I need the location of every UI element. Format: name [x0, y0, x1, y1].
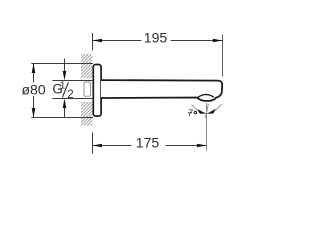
- arrow up to thread bottom: [63, 99, 67, 108]
- G1/2 bottom leader: [64, 107, 66, 117]
- arrow left of angle: [197, 109, 206, 114]
- arrow right of 195: [213, 39, 223, 43]
- svg-text:ø80: ø80: [22, 81, 46, 97]
- angle tilted axis line: [205, 104, 208, 118]
- dia80 extension line bottom: [31, 117, 93, 119]
- dim 195 right extension line: [222, 35, 224, 77]
- dim 195 line: [93, 40, 142, 42]
- dim 175 left extension line: [92, 133, 94, 154]
- arrow bottom of dia80: [32, 108, 36, 118]
- dim dia80 vertical line lower: [33, 96, 35, 118]
- arrow top of dia80: [32, 63, 36, 73]
- svg-text:195: 195: [144, 30, 168, 46]
- arrow down to thread top: [63, 71, 67, 80]
- dia80 extension line top: [31, 63, 93, 65]
- outlet centerline (175 right extension): [206, 103, 208, 151]
- spout body outline: [101, 80, 222, 101]
- flange (escutcheon side view): [93, 65, 101, 117]
- thread nipple G1/2: [84, 82, 91, 96]
- dim 195 left extension line: [92, 33, 94, 51]
- wall hatch lower: [52, 102, 114, 132]
- angle arc: [192, 104, 222, 113]
- wall hatch upper: [52, 54, 114, 84]
- arrow left of 175: [92, 144, 102, 148]
- label G1/2: [52, 81, 73, 101]
- svg-text:2: 2: [67, 89, 73, 101]
- arrow right of angle: [207, 109, 216, 114]
- aerator lip top line: [198, 94, 214, 97]
- dim dia80 vertical line upper: [33, 64, 35, 83]
- G1/2 extension line bottom (pipe bottom edge): [52, 98, 93, 100]
- G1/2 extension line top (pipe top edge): [52, 80, 93, 82]
- dim 175 line: [93, 145, 132, 147]
- arrow left of 195: [92, 39, 102, 43]
- G1/2 top leader: [64, 59, 66, 73]
- svg-text:175: 175: [136, 135, 160, 151]
- label 7deg: [188, 108, 197, 118]
- arrow right of 175: [197, 144, 207, 148]
